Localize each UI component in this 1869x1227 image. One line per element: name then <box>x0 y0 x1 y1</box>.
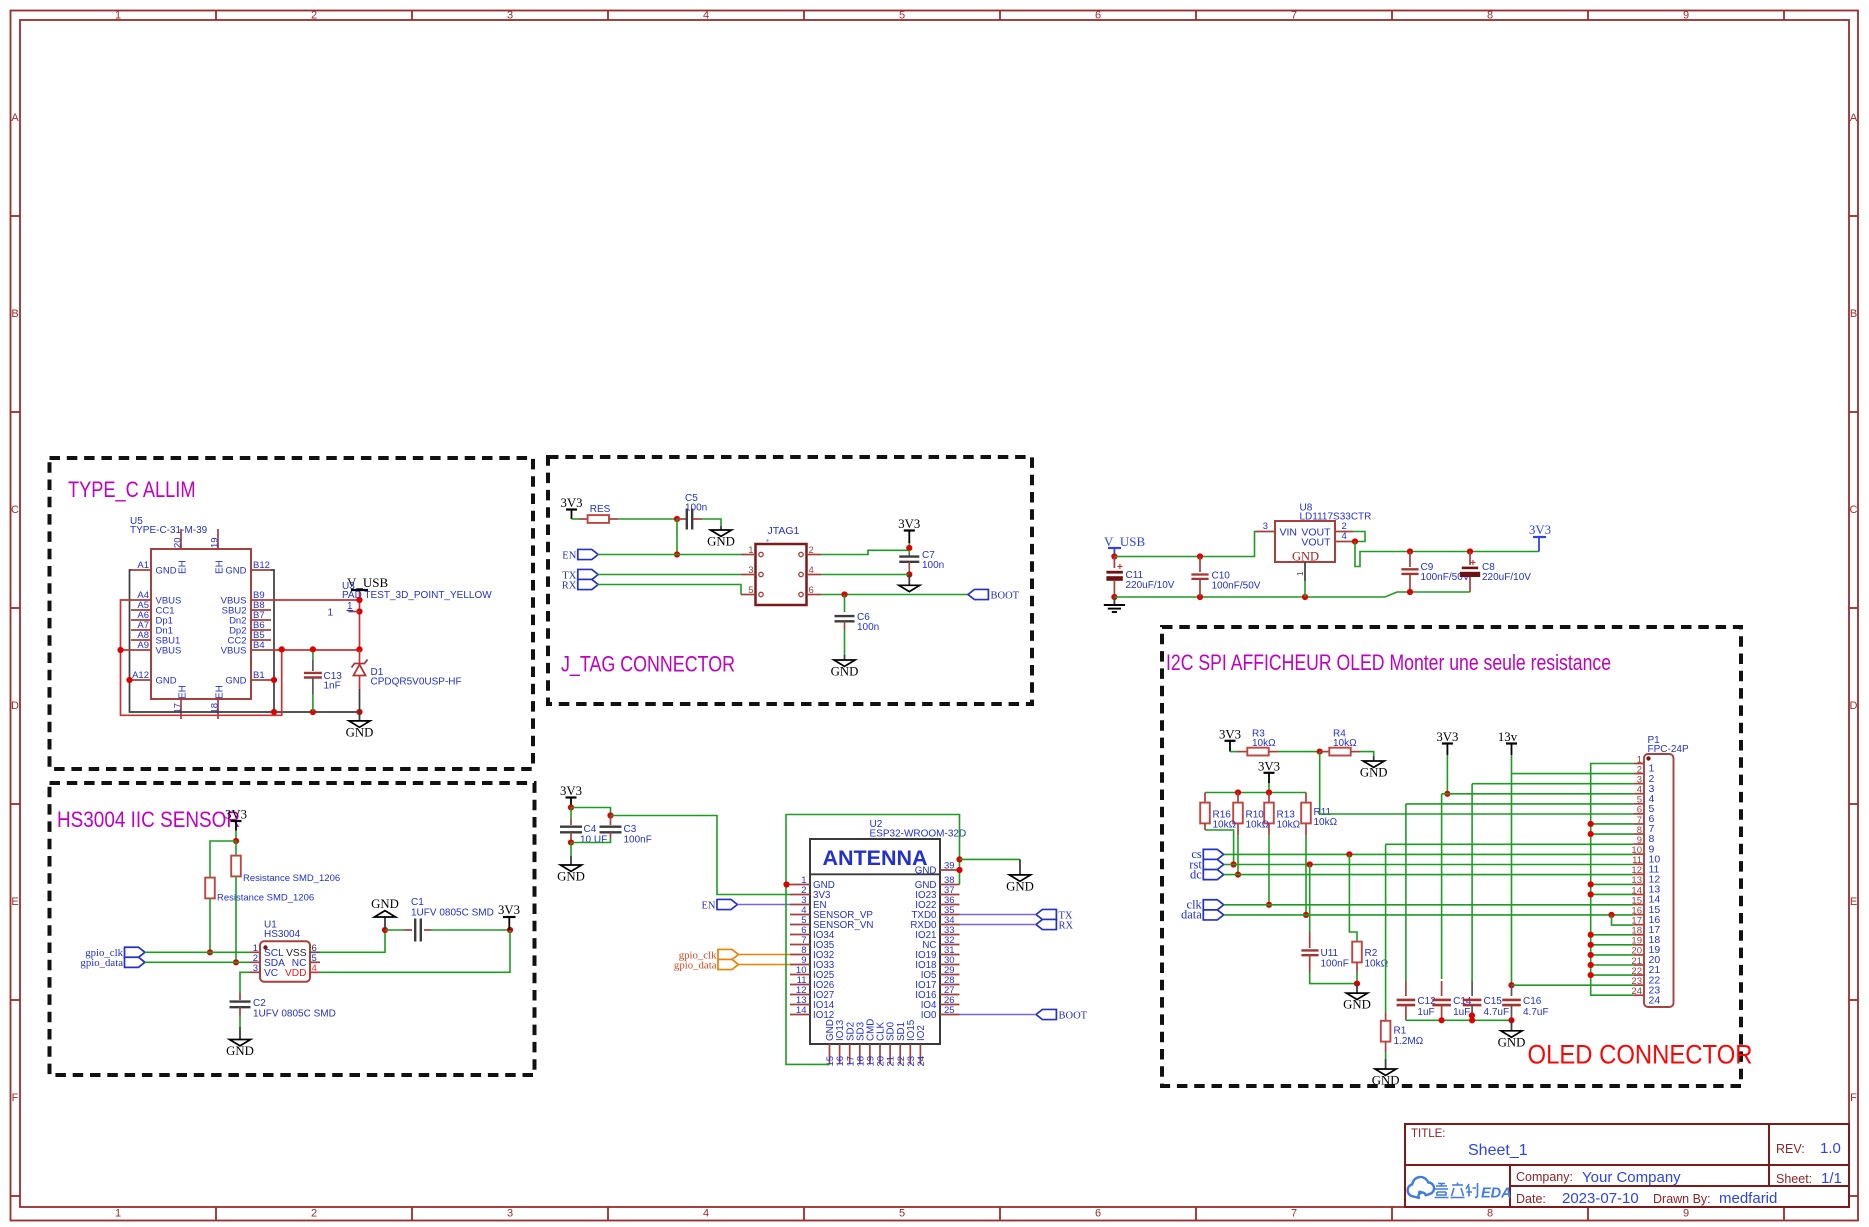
svg-text:R1: R1 <box>1394 1026 1407 1037</box>
svg-text:VOUT: VOUT <box>1301 536 1331 548</box>
svg-text:EH: EH <box>215 685 226 699</box>
svg-text:HS3004: HS3004 <box>264 929 301 940</box>
C1 right pin <box>424 929 431 931</box>
svg-text:C4: C4 <box>584 824 597 835</box>
svg-text:Sheet:: Sheet: <box>1776 1172 1812 1186</box>
svg-text:HS3004 IIC SENSOR: HS3004 IIC SENSOR <box>57 807 240 832</box>
svg-text:D: D <box>11 700 19 712</box>
wire 13v down <box>1511 755 1513 774</box>
wire GND node to C1 <box>385 929 404 931</box>
C8 top pin <box>1469 552 1471 566</box>
net flag EN (ESP32) <box>702 899 738 911</box>
ground at C6 <box>831 655 859 679</box>
junction C15 bottom <box>1469 1017 1475 1023</box>
ground at D1 <box>346 711 374 739</box>
junction cs/R2 <box>1346 851 1352 857</box>
U8 pin 2 (VOUT) <box>1335 531 1353 533</box>
wire GND bottom to D1/GND <box>274 711 360 713</box>
U2 pin 29 (IO5) <box>940 974 960 976</box>
RES left pin <box>579 518 588 520</box>
junction C16 top / pin23 net <box>1508 982 1514 988</box>
JTAG1 pin 3 <box>741 574 756 576</box>
svg-text:100n: 100n <box>857 622 879 633</box>
wire EN to JTAG1 pin1 <box>597 554 741 556</box>
svg-text:ESP32-WROOM-32D: ESP32-WROOM-32D <box>870 829 967 840</box>
P1 pin 23 <box>1633 984 1644 986</box>
U2 pin 3 (EN) <box>790 904 810 906</box>
svg-text:1: 1 <box>327 608 333 619</box>
svg-text:TITLE:: TITLE: <box>1411 1128 1446 1140</box>
svg-text:EN: EN <box>702 900 716 911</box>
svg-text:1UFV 0805C SMD: 1UFV 0805C SMD <box>411 908 494 919</box>
svg-text:100n: 100n <box>685 503 707 514</box>
regulator U8 LD1117S33CTR body <box>1275 521 1335 562</box>
svg-text:220uF/10V: 220uF/10V <box>1126 580 1175 591</box>
wire R11 to data <box>1305 836 1307 915</box>
svg-text:1uF: 1uF <box>1453 1007 1470 1018</box>
svg-text:gpio_data: gpio_data <box>80 957 123 969</box>
U5 pin 17 (EH) <box>180 699 182 719</box>
R3 right pin <box>1269 751 1278 753</box>
R3 left pin <box>1237 751 1247 753</box>
junction R13/clk <box>1266 902 1272 908</box>
wire gpio_clk to U2 pin8 <box>738 954 790 956</box>
svg-text:10kΩ: 10kΩ <box>1213 820 1237 831</box>
junction at C7 top <box>906 545 912 551</box>
RES right pin <box>609 518 618 520</box>
svg-text:100nF/50V: 100nF/50V <box>1212 581 1261 592</box>
R1 top pin <box>1385 1013 1387 1021</box>
C12 top pin <box>1405 981 1407 996</box>
U2 pin 25 (IO0) <box>940 1014 960 1016</box>
svg-text:6: 6 <box>1095 1208 1101 1220</box>
wire R3 to R4 <box>1278 751 1320 753</box>
U2 antenna divider <box>810 873 940 875</box>
junction A9 VBUS <box>117 647 123 653</box>
svg-text:PAD TEST_3D_POINT_YELLOW: PAD TEST_3D_POINT_YELLOW <box>342 590 492 601</box>
wire 3V3 to RES <box>572 518 580 520</box>
junction C14 bottom <box>1439 1017 1445 1023</box>
wire data to P1 pin17 <box>1612 915 1634 925</box>
svg-text:4: 4 <box>1342 531 1347 542</box>
wire C4 to GND <box>570 843 572 857</box>
wire R(left) to gpio_clk <box>209 898 211 952</box>
svg-text:C16: C16 <box>1523 996 1542 1007</box>
junction V_USB at B9 <box>356 597 362 603</box>
junction gpio_clk pullup <box>207 949 213 955</box>
wire 3V3 mid down <box>1446 755 1448 794</box>
svg-text:3: 3 <box>507 10 513 22</box>
wire R(right) to gpio_data <box>235 876 237 962</box>
wire P1 GND bus (pins 1,24) <box>1591 764 1634 996</box>
P1 pin 3 <box>1633 783 1644 785</box>
U2 pin 27 (IO16) <box>940 994 960 996</box>
U2 pin 31 (IO19) <box>940 954 960 956</box>
ground at C1 (up) <box>371 897 399 930</box>
P1 pin 13 <box>1633 883 1644 885</box>
junction GND bus pin 19 <box>1588 942 1594 948</box>
U5 pin A9 (VBUS) <box>131 649 151 651</box>
junction 3V3/pin4 net <box>1444 791 1450 797</box>
wire TX to JTAG1 pin3 <box>597 574 741 576</box>
wire GND bus to P1 pin 14 <box>1591 893 1634 895</box>
U2 pin 5 (SENSOR_VN) <box>790 924 810 926</box>
svg-text:2023-07-10: 2023-07-10 <box>1562 1190 1639 1207</box>
connector U5 TYPE-C-31-M-39 body <box>151 549 251 699</box>
svg-text:Resistance SMD_1206: Resistance SMD_1206 <box>217 893 314 904</box>
capacitor C9 <box>1401 569 1418 574</box>
resistor R13 10k <box>1264 803 1274 824</box>
wire C16 to P1 pin23 <box>1512 984 1634 986</box>
C8 bottom pin <box>1469 577 1471 592</box>
svg-text:GND: GND <box>1006 880 1034 894</box>
section box I2C SPI AFFICHEUR OLED <box>1162 627 1741 1086</box>
svg-text:VDD: VDD <box>285 968 307 979</box>
net flag rst <box>1189 857 1223 871</box>
wire rst to P1 pin11 <box>1224 864 1634 866</box>
svg-text:Sheet_1: Sheet_1 <box>1468 1142 1528 1159</box>
wire pin5 net down to C12 <box>1405 804 1407 981</box>
svg-text:Drawn By:: Drawn By: <box>1653 1192 1711 1206</box>
P1 pin 21 <box>1633 964 1644 966</box>
U1 pin 6 (VSS) <box>310 951 320 953</box>
wire 13v to C16 <box>1511 774 1513 986</box>
C2 top pin <box>239 993 241 1001</box>
svg-text:39: 39 <box>944 861 955 872</box>
junction GND bus pin 18 <box>1588 932 1594 938</box>
svg-text:R2: R2 <box>1365 948 1378 959</box>
svg-text:3V3: 3V3 <box>560 784 582 798</box>
svg-text:2: 2 <box>311 10 317 22</box>
svg-text:10kΩ: 10kΩ <box>1333 738 1357 749</box>
U2 pin 33 (IO21) <box>940 934 960 936</box>
U2 pin 24 (IO2) <box>919 1044 921 1064</box>
junction C3 top <box>607 812 613 818</box>
svg-text:1: 1 <box>115 1208 121 1220</box>
ground at C4 <box>557 856 585 884</box>
U5 pin 20 (EH) <box>180 529 182 549</box>
resistor R1 1.2M <box>1381 1021 1391 1042</box>
C9 top pin <box>1409 552 1411 568</box>
svg-text:3: 3 <box>748 565 753 576</box>
U2 pin 22 (SD1) <box>899 1044 901 1064</box>
U1 pin 2 (SDA) <box>250 961 260 963</box>
U2 pin 12 (IO27) <box>790 994 810 996</box>
wire GND bus to P1 pin 19 <box>1591 944 1634 946</box>
junction GND bottom left <box>271 709 277 715</box>
svg-text:3V3: 3V3 <box>1436 730 1458 744</box>
P1 pin 16 <box>1633 914 1644 916</box>
junction bus R13 <box>1266 789 1272 795</box>
junction VBUS at C13 <box>310 646 316 652</box>
wire GND bus to P1 pin 7 <box>1591 823 1634 825</box>
JLCEDA logo <box>1408 1177 1512 1202</box>
U2 pin 36 (IO22) <box>940 904 960 906</box>
svg-text:3V3: 3V3 <box>1529 523 1551 537</box>
R4 left pin <box>1320 751 1329 753</box>
svg-text:C: C <box>1850 504 1858 516</box>
junction GND bus pin 13 <box>1588 881 1594 887</box>
U2 pin 39 (GND) <box>940 869 960 871</box>
U2 pin 34 (RXD0) <box>940 924 960 926</box>
wire GND bus to P1 pin 20 <box>1591 954 1634 956</box>
P1 pin 15 <box>1633 904 1644 906</box>
wire GND bus to P1 pin 18 <box>1591 934 1634 936</box>
ground (earth) at C11 <box>1104 597 1125 612</box>
junction GND bus pin 21 <box>1588 962 1594 968</box>
title block <box>1405 1124 1849 1207</box>
svg-text:VBUS: VBUS <box>221 645 247 656</box>
junction GND bus pin 14 <box>1588 891 1594 897</box>
junction 3V3/C1/VDD <box>507 927 513 933</box>
svg-text:14: 14 <box>796 1005 807 1016</box>
wire C6 top <box>844 595 846 613</box>
wire GND loop over U2 <box>786 815 960 885</box>
svg-text:3V3: 3V3 <box>1219 727 1241 741</box>
P1 pin 17 <box>1633 924 1644 926</box>
svg-text:A1: A1 <box>137 560 149 571</box>
capacitor C10 <box>1191 575 1208 579</box>
svg-text:1: 1 <box>748 545 753 556</box>
svg-text:B12: B12 <box>253 560 270 571</box>
wire C2 to GND <box>239 1016 241 1027</box>
resistor R3 10k <box>1247 748 1268 756</box>
U2 pin 26 (IO4) <box>940 1004 960 1006</box>
svg-text:100nF: 100nF <box>1321 959 1349 970</box>
wire IO0 to BOOT <box>960 1014 1037 1016</box>
svg-text:medfarid: medfarid <box>1719 1190 1777 1207</box>
svg-text:E: E <box>11 896 18 908</box>
wire cs to P1 pin10 <box>1224 853 1634 855</box>
P1 pin 8 <box>1633 833 1644 835</box>
R11 bottom pin <box>1305 823 1307 835</box>
svg-text:GND: GND <box>156 565 177 576</box>
C4 top pin <box>570 819 572 825</box>
P1 pin 24 <box>1633 994 1644 996</box>
sensor U1 HS3004 body <box>260 941 310 981</box>
junction C9 top <box>1407 548 1413 554</box>
junction VSS/C1/GND <box>382 927 388 933</box>
wire GND bus to P1 pin 8 <box>1591 833 1634 835</box>
JTAG1 pin 5 <box>741 594 756 596</box>
junction at C6 <box>841 591 847 597</box>
wire dc to P1 pin12 <box>1224 874 1634 876</box>
junction U8 VOUT <box>1352 538 1358 544</box>
capacitor C6 <box>835 616 855 621</box>
wire U5 B12 GND down right side <box>271 570 274 712</box>
junction B1-GND <box>271 677 277 683</box>
junction at C5 <box>674 516 680 522</box>
capacitor C14 <box>1432 1000 1451 1005</box>
svg-text:C2: C2 <box>253 998 266 1009</box>
P1 pin 1 <box>1633 763 1644 765</box>
U1 pin 3 (VC) <box>250 971 260 973</box>
net flag cs <box>1191 847 1223 861</box>
junction R3/R4 <box>1317 749 1323 755</box>
svg-text:TYPE-C-31-M-39: TYPE-C-31-M-39 <box>130 525 208 536</box>
net flag gpio_clk (ESP32) <box>679 949 739 961</box>
R16 top pin <box>1204 793 1206 803</box>
svg-text:E: E <box>1850 896 1857 908</box>
wire to R(right) top <box>235 841 237 856</box>
wire RES to C5 <box>618 518 677 520</box>
C10 bottom pin <box>1199 579 1201 597</box>
diode D1 CPDQR5V0USP-HF <box>359 650 361 664</box>
wire R13 to clk <box>1268 836 1270 905</box>
svg-text:24: 24 <box>1649 994 1661 1006</box>
C14 bottom pin <box>1441 1005 1443 1020</box>
junction C11 bottom <box>1111 594 1117 600</box>
wire A9 VBUS stub <box>121 649 132 651</box>
net flag dc <box>1190 867 1224 881</box>
svg-text:1UFV 0805C SMD: 1UFV 0805C SMD <box>253 1009 336 1020</box>
svg-text:IO2: IO2 <box>916 1025 927 1041</box>
junction R16/rst <box>1231 861 1237 867</box>
P1 pin 12 <box>1633 873 1644 875</box>
svg-text:Resistance SMD_1206: Resistance SMD_1206 <box>243 873 340 884</box>
wire VBUS loop A4 around bottom <box>121 600 282 715</box>
junction C7 bottom / pin4 <box>906 571 912 577</box>
junction C15 stub <box>1469 1012 1475 1018</box>
wire U1 VC to C2 <box>240 972 250 992</box>
resistor R2 10k <box>1352 942 1362 963</box>
wire pin9 net down to R1 <box>1385 844 1387 1013</box>
ground at R4 <box>1360 756 1388 780</box>
U5 pin A8 (SBU1) <box>131 639 151 641</box>
U5 pin 18 (EH) <box>217 699 219 719</box>
svg-text:C1: C1 <box>411 897 424 908</box>
P1 pin 9 <box>1633 843 1644 845</box>
net flag EN (JTAG) <box>562 549 598 561</box>
svg-text:VC: VC <box>264 968 278 979</box>
R10 top pin <box>1237 793 1239 803</box>
svg-text:A9: A9 <box>137 640 149 651</box>
svg-text:4.7uF: 4.7uF <box>1484 1007 1510 1018</box>
junction C10 bottom <box>1197 594 1203 600</box>
connector JTAG1 body <box>756 544 807 605</box>
JTAG1 pin 4 <box>807 574 822 576</box>
wire R4 to GND <box>1360 752 1374 756</box>
svg-text:TYPE_C ALLIM: TYPE_C ALLIM <box>68 477 196 502</box>
svg-text:3V3: 3V3 <box>1258 759 1280 773</box>
junction C9 bottom <box>1407 589 1413 595</box>
svg-text:3V3: 3V3 <box>560 496 582 510</box>
wire U1 VSS to GND node <box>320 930 385 952</box>
svg-text:1.2MΩ: 1.2MΩ <box>1394 1036 1424 1047</box>
wire 3V3 to C3 top <box>571 808 611 816</box>
junction VBUS loop top <box>279 646 285 652</box>
P1 pin 10 <box>1633 853 1644 855</box>
resistor R10 10k <box>1233 803 1243 824</box>
junction U2 pin39 <box>956 867 962 873</box>
svg-text:4: 4 <box>703 10 709 22</box>
wire 3V3 net to P1 pin4 <box>1442 793 1634 795</box>
JTAG1 pin 1 <box>741 554 756 556</box>
C1 left pin <box>404 929 412 931</box>
svg-text:EDA: EDA <box>1481 1186 1512 1202</box>
U5 pin B5 (CC2) <box>251 639 271 641</box>
R2 bottom pin <box>1356 962 1358 972</box>
JTAG1 pin 2 <box>807 554 822 556</box>
svg-text:I2C SPI AFFICHEUR OLED Monter: I2C SPI AFFICHEUR OLED Monter une seule … <box>1166 650 1611 675</box>
wire U8 VOUT to 3V3 <box>1355 542 1539 567</box>
U2 pin 1 (GND) <box>790 884 810 886</box>
svg-text:3: 3 <box>253 963 258 974</box>
svg-text:C15: C15 <box>1484 996 1503 1007</box>
svg-text:3V3: 3V3 <box>225 808 247 822</box>
U1 origin mark <box>263 945 267 949</box>
svg-text:RX: RX <box>562 580 577 591</box>
U8 pin 4 (VOUT) <box>1335 541 1355 543</box>
junction GND at D1 <box>356 709 362 715</box>
C7 top pin <box>908 554 910 556</box>
power net 3V3 (R3) <box>1219 727 1241 751</box>
junction U8 GND <box>1302 594 1308 600</box>
svg-text:OLED CONNECTOR: OLED CONNECTOR <box>1528 1040 1753 1070</box>
wire data to P1 pin16 <box>1224 914 1634 916</box>
ground at C7 <box>908 575 910 586</box>
svg-text:GND: GND <box>346 726 374 740</box>
svg-text:Company:: Company: <box>1516 1170 1573 1184</box>
C11 top pin <box>1113 557 1115 569</box>
svg-text:4: 4 <box>312 963 317 974</box>
power net 3V3 (JTAG right) <box>898 517 920 544</box>
net flag TX (ESP32) <box>1036 909 1073 921</box>
svg-text:GND: GND <box>1360 766 1388 780</box>
JTAG1 origin mark <box>766 539 768 541</box>
svg-text:A12: A12 <box>132 670 149 681</box>
capacitor C13 <box>304 673 322 678</box>
svg-text:LD1117S33CTR: LD1117S33CTR <box>1300 512 1372 523</box>
C11 bottom pin <box>1113 581 1115 597</box>
U2 pin 10 (IO25) <box>790 974 810 976</box>
svg-text:CPDQR5V0USP-HF: CPDQR5V0USP-HF <box>371 677 462 688</box>
power net 3V3 (JTAG left) <box>560 496 582 519</box>
U5 pin A4 (VBUS) <box>131 599 151 601</box>
ground at R1 <box>1372 1059 1400 1088</box>
svg-text:6: 6 <box>809 585 814 596</box>
svg-text:6: 6 <box>1095 10 1101 22</box>
U5 pin A12 (GND) <box>131 679 151 681</box>
svg-text:GND: GND <box>225 565 246 576</box>
svg-text:C: C <box>11 504 19 516</box>
junction rst/U11 <box>1307 861 1313 867</box>
svg-text:VBUS: VBUS <box>156 645 182 656</box>
svg-text:13v: 13v <box>1498 730 1518 744</box>
wire B9 VBUS to V_USB <box>271 599 360 601</box>
net flag data <box>1181 908 1224 922</box>
junction C16 bottom <box>1508 1017 1514 1023</box>
svg-text:20: 20 <box>173 537 184 548</box>
junction EN wire <box>674 551 680 557</box>
wire JTAG1 pin6 to BOOT <box>821 594 968 596</box>
junction 3V3 resistors <box>233 838 239 844</box>
wire 13v to P1 pin2 <box>1512 773 1634 775</box>
svg-text:GND: GND <box>915 866 937 877</box>
svg-text:GND: GND <box>1343 998 1371 1012</box>
R13 bottom pin <box>1268 823 1270 835</box>
wire 3V3 to U2 pin2 <box>611 816 791 895</box>
wire C7 top <box>908 550 910 554</box>
U5 pin A1 (GND) <box>131 569 151 571</box>
net flag BOOT (JTAG) <box>968 589 1020 601</box>
svg-text:EH: EH <box>178 685 189 699</box>
svg-text:GND: GND <box>1498 1035 1526 1049</box>
wire B4 VBUS to D1 <box>271 649 360 651</box>
junction GND bus pin 22 <box>1588 972 1594 978</box>
wire C1 to 3V3 node <box>431 929 510 931</box>
U2 pin 6 (IO34) <box>790 934 810 936</box>
